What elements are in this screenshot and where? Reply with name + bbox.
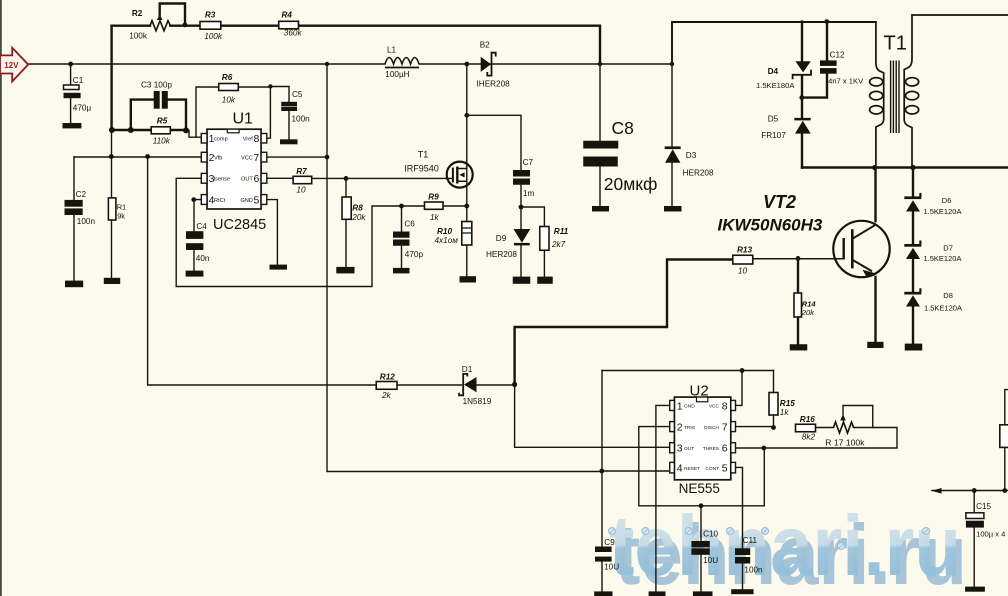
svg-text:VCC: VCC [709, 404, 720, 410]
svg-text:6: 6 [253, 173, 259, 185]
svg-text:TRIG: TRIG [684, 425, 696, 431]
svg-text:10U: 10U [604, 563, 619, 572]
svg-text:NE555: NE555 [679, 481, 720, 496]
svg-text:100n: 100n [77, 217, 96, 226]
svg-text:R5: R5 [157, 117, 168, 126]
svg-text:R8: R8 [352, 203, 363, 212]
svg-text:OUT: OUT [241, 177, 253, 183]
svg-text:THRES: THRES [703, 446, 719, 452]
svg-text:1N5819: 1N5819 [463, 397, 492, 406]
svg-text:1k: 1k [780, 408, 790, 417]
svg-text:D7: D7 [943, 244, 953, 253]
svg-text:U2: U2 [690, 382, 709, 399]
svg-text:10: 10 [296, 185, 306, 194]
svg-text:C11: C11 [743, 536, 758, 545]
svg-text:8: 8 [722, 400, 728, 412]
svg-text:2k7: 2k7 [551, 240, 566, 249]
svg-text:U1: U1 [233, 111, 254, 128]
svg-text:C2: C2 [76, 190, 87, 199]
svg-text:C4: C4 [196, 222, 207, 231]
svg-text:UC2845: UC2845 [213, 217, 266, 233]
svg-text:C9: C9 [604, 538, 615, 547]
svg-text:1: 1 [677, 400, 683, 412]
svg-text:GND: GND [240, 198, 252, 204]
svg-text:R11: R11 [554, 227, 569, 236]
svg-text:FR107: FR107 [761, 131, 786, 140]
svg-text:1m: 1m [523, 189, 535, 198]
svg-text:GND: GND [684, 404, 695, 410]
svg-text:C12: C12 [830, 51, 845, 60]
svg-text:110k: 110k [153, 137, 171, 146]
svg-text:R9: R9 [428, 193, 439, 202]
svg-text:6: 6 [722, 443, 728, 455]
svg-text:100µ x 4: 100µ x 4 [976, 529, 1005, 538]
svg-text:8k2: 8k2 [802, 432, 816, 441]
svg-text:D1: D1 [462, 365, 473, 374]
svg-text:R 17 100k: R 17 100k [825, 438, 865, 448]
svg-text:C5: C5 [292, 90, 303, 99]
svg-text:Vfb: Vfb [214, 156, 222, 162]
svg-text:D3: D3 [686, 151, 697, 160]
svg-text:T1: T1 [418, 149, 429, 159]
svg-text:VCC: VCC [241, 156, 253, 162]
svg-text:20k: 20k [351, 213, 366, 222]
svg-text:20k: 20k [801, 308, 815, 317]
svg-text:B2: B2 [480, 40, 490, 49]
svg-text:100µH: 100µH [385, 70, 409, 79]
svg-text:C3 100p: C3 100p [141, 80, 172, 89]
svg-text:R1: R1 [117, 203, 126, 212]
svg-text:C1: C1 [73, 76, 84, 85]
svg-text:IRF9540: IRF9540 [404, 164, 439, 174]
svg-text:20мкф: 20мкф [604, 174, 658, 194]
svg-text:5: 5 [722, 463, 728, 475]
svg-text:R13: R13 [737, 246, 752, 255]
svg-text:HER208: HER208 [683, 168, 714, 177]
svg-text:VT2: VT2 [763, 192, 796, 212]
svg-text:1.5KE180A: 1.5KE180A [756, 81, 795, 90]
svg-text:HER208: HER208 [486, 250, 517, 259]
svg-text:D4: D4 [768, 67, 779, 76]
svg-text:10U: 10U [703, 556, 718, 565]
svg-text:C15: C15 [976, 502, 991, 511]
svg-text:100n: 100n [744, 565, 763, 574]
svg-text:R12: R12 [380, 373, 395, 382]
svg-text:C7: C7 [523, 158, 534, 167]
svg-text:C6: C6 [404, 220, 415, 229]
svg-text:10k: 10k [222, 95, 236, 104]
svg-text:7: 7 [253, 152, 259, 164]
svg-text:4x1ом: 4x1ом [435, 236, 459, 245]
svg-text:40n: 40n [196, 254, 210, 263]
svg-text:D5: D5 [768, 115, 779, 124]
svg-text:D9: D9 [496, 234, 507, 243]
svg-text:100k: 100k [204, 32, 223, 41]
svg-text:R3: R3 [205, 10, 216, 19]
svg-text:10: 10 [738, 267, 748, 276]
svg-text:D8: D8 [943, 291, 953, 300]
svg-text:7: 7 [722, 422, 728, 434]
svg-text:L1: L1 [387, 45, 397, 54]
svg-text:2k: 2k [381, 391, 392, 400]
svg-text:R2: R2 [132, 9, 143, 18]
svg-text:R15: R15 [780, 399, 795, 408]
svg-text:Isense: Isense [214, 177, 230, 183]
svg-text:8: 8 [253, 133, 259, 145]
svg-text:5: 5 [253, 194, 259, 206]
svg-text:1k: 1k [430, 213, 440, 222]
svg-text:1.5KE120A: 1.5KE120A [924, 254, 962, 263]
svg-text:470p: 470p [405, 250, 424, 259]
svg-text:1.5KE120A: 1.5KE120A [924, 207, 962, 216]
svg-text:D6: D6 [942, 196, 952, 205]
svg-text:IHER208: IHER208 [477, 79, 511, 88]
svg-text:DISCH: DISCH [704, 425, 719, 431]
svg-text:4n7 x 1KV: 4n7 x 1KV [828, 77, 864, 86]
svg-text:R16: R16 [800, 415, 815, 424]
svg-text:CONT: CONT [705, 466, 719, 472]
svg-text:RESET: RESET [684, 466, 700, 472]
svg-text:100k: 100k [129, 31, 148, 40]
svg-text:2: 2 [677, 422, 683, 434]
svg-text:4: 4 [677, 463, 683, 475]
svg-text:12V: 12V [4, 61, 19, 70]
svg-text:R10: R10 [437, 227, 452, 236]
svg-text:comp: comp [214, 136, 228, 142]
svg-text:C10: C10 [703, 530, 718, 539]
svg-text:470µ: 470µ [73, 103, 92, 112]
svg-text:360k: 360k [284, 29, 303, 38]
svg-text:9k: 9k [117, 211, 125, 220]
svg-text:RtCt: RtCt [214, 198, 226, 204]
svg-text:3: 3 [677, 443, 683, 455]
svg-text:OUT: OUT [684, 446, 694, 452]
svg-text:R4: R4 [282, 11, 293, 20]
svg-text:IKW50N60H3: IKW50N60H3 [718, 215, 823, 234]
svg-text:T1: T1 [884, 33, 907, 55]
svg-text:Vref: Vref [243, 136, 253, 142]
svg-text:100n: 100n [292, 114, 311, 123]
svg-text:R7: R7 [296, 167, 307, 176]
svg-text:C8: C8 [612, 118, 634, 138]
svg-text:tehnari.ru: tehnari.ru [609, 499, 961, 594]
svg-text:R6: R6 [222, 73, 233, 82]
svg-text:1.5KE120A: 1.5KE120A [924, 304, 962, 313]
